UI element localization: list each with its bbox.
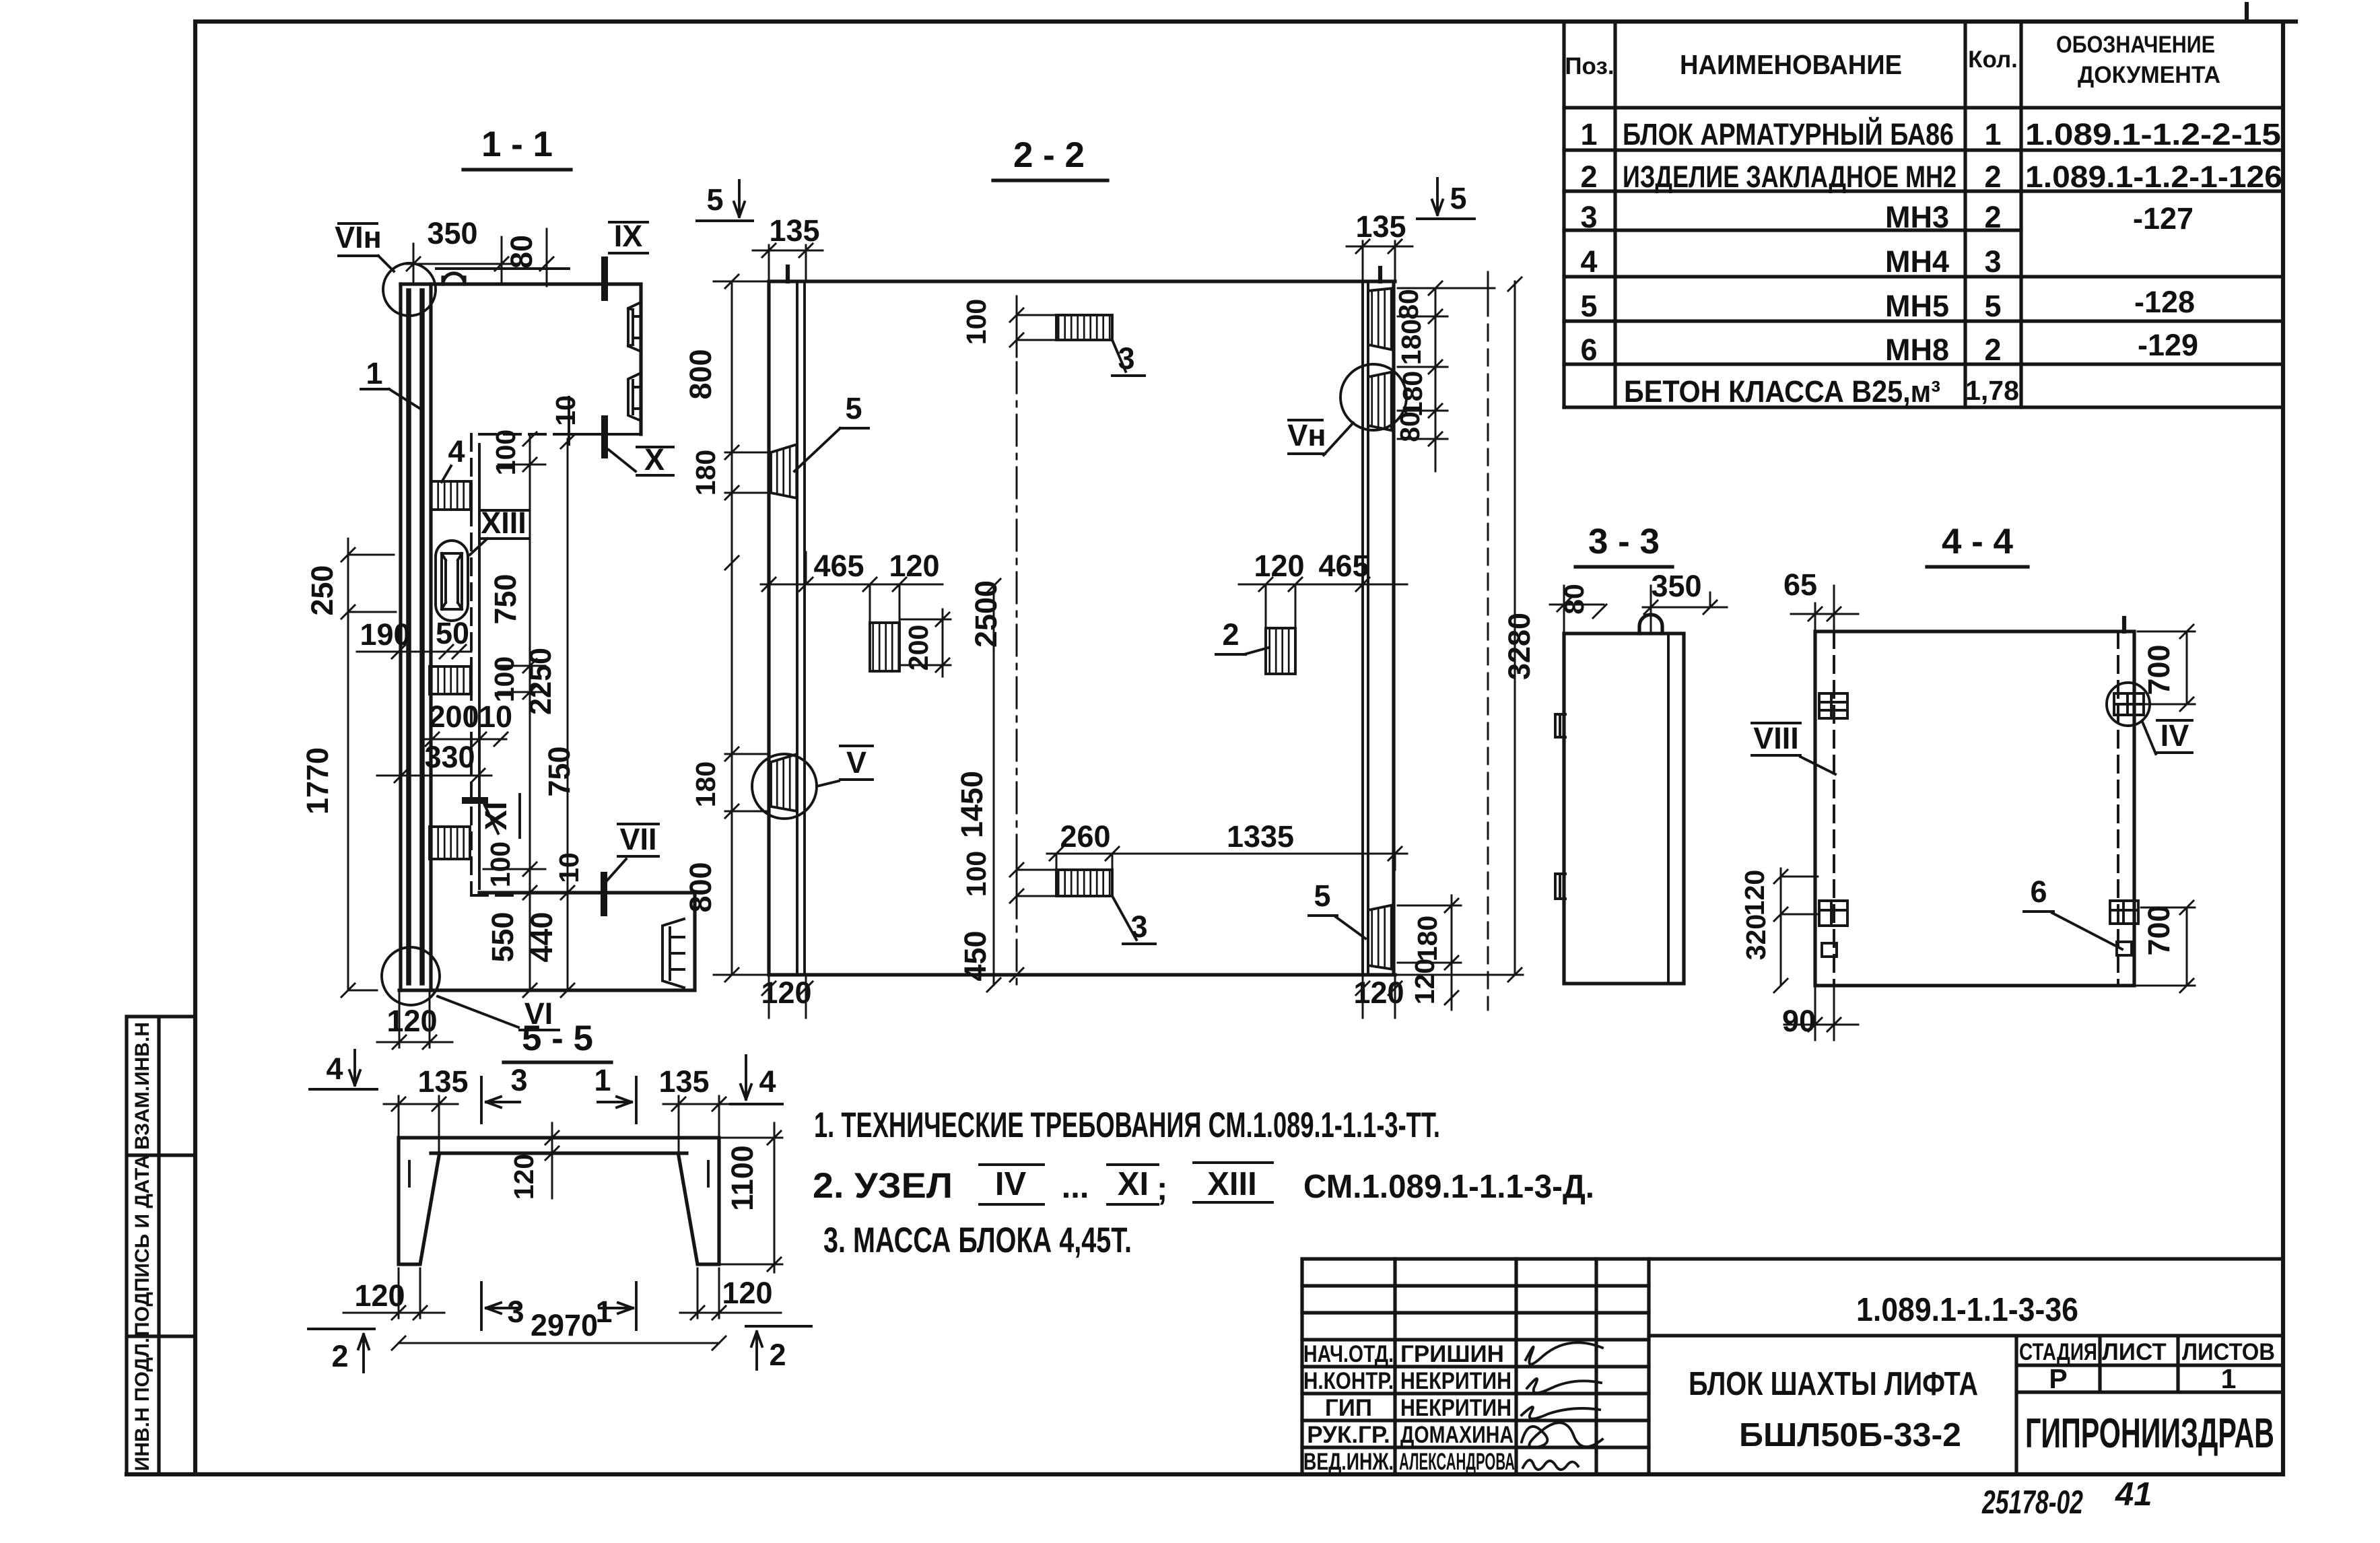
svg-text:1450: 1450 (955, 771, 989, 838)
svg-text:100: 100 (961, 299, 992, 345)
svg-text:ИНВ.Н ПОДЛ.: ИНВ.Н ПОДЛ. (131, 1338, 154, 1472)
svg-text:65: 65 (1783, 568, 1817, 602)
svg-text:ГРИШИН: ГРИШИН (1400, 1341, 1504, 1367)
svg-text:450: 450 (958, 930, 992, 981)
svg-text:80: 80 (504, 235, 539, 269)
svg-text:IX: IX (614, 219, 643, 253)
svg-text:5: 5 (1314, 879, 1330, 913)
1-1 key top A (628, 302, 641, 351)
svg-text:120: 120 (508, 1154, 539, 1200)
1-1 inner face dashed (471, 434, 569, 895)
svg-text:1: 1 (2221, 1363, 2237, 1394)
svg-text:700: 700 (2142, 905, 2176, 955)
4-4 circled node IV (2107, 683, 2150, 726)
svg-text:МН3: МН3 (1885, 200, 1949, 234)
svg-text:5: 5 (1450, 181, 1466, 215)
svg-text:5: 5 (706, 182, 723, 217)
2-2 left wall inner lines (797, 281, 805, 975)
svg-text:135: 135 (417, 1064, 468, 1099)
svg-text:2 - 2: 2 - 2 (1013, 135, 1085, 175)
svg-text:180: 180 (690, 450, 721, 495)
svg-text:5 - 5: 5 - 5 (522, 1019, 593, 1058)
svg-text:3 - 3: 3 - 3 (1588, 522, 1660, 561)
1-1 node circle VI (382, 947, 440, 1005)
2-2 rebar ticks top (788, 267, 1380, 281)
svg-text:1.089.1-1.1-3-36: 1.089.1-1.1-3-36 (1856, 1292, 2078, 1328)
svg-text:1770: 1770 (300, 747, 335, 815)
1-1 oval hole XIII (436, 541, 468, 621)
svg-text:120: 120 (1409, 959, 1440, 1004)
svg-text:Поз.: Поз. (1565, 53, 1614, 79)
svg-text:3280: 3280 (1502, 613, 1536, 680)
svg-text:XI: XI (1118, 1166, 1149, 1202)
svg-text:XIII: XIII (1207, 1166, 1257, 1202)
svg-text:-129: -129 (2138, 328, 2198, 362)
svg-text:1: 1 (595, 1295, 612, 1329)
svg-text:135: 135 (769, 213, 819, 248)
2-2 hatch plate 3 top (1056, 315, 1112, 340)
svg-text:5: 5 (845, 391, 862, 425)
svg-text:2. УЗЕЛ: 2. УЗЕЛ (813, 1166, 953, 1206)
svg-text:1: 1 (1580, 117, 1597, 151)
2-2 main outline (769, 281, 1395, 975)
title block outer (1302, 1259, 2283, 1474)
1-1 node circle VIн (383, 263, 436, 316)
svg-text:1100: 1100 (725, 1145, 759, 1211)
svg-text:465: 465 (813, 549, 864, 583)
svg-text:135: 135 (658, 1064, 709, 1099)
svg-text:СТАДИЯ: СТАДИЯ (2019, 1339, 2097, 1365)
svg-text:5: 5 (1580, 289, 1597, 323)
svg-text:VIн: VIн (335, 220, 382, 254)
1-1 key top B (628, 373, 641, 421)
2-2 embedded plate 2 right (1266, 628, 1295, 674)
svg-text:3: 3 (1130, 910, 1147, 944)
svg-text:1: 1 (594, 1063, 611, 1097)
3-3 lifting loop (1639, 615, 1662, 633)
2-2 right wall wedge bottom (1368, 905, 1394, 969)
svg-text:750: 750 (488, 574, 522, 624)
svg-text:3: 3 (507, 1295, 524, 1329)
svg-text:ВЗАМ.ИНВ.Н: ВЗАМ.ИНВ.Н (131, 1022, 154, 1150)
svg-text:1: 1 (366, 356, 382, 390)
svg-text:Кол.: Кол. (1968, 46, 2018, 73)
svg-text:ДОМАХИНА: ДОМАХИНА (1400, 1422, 1514, 1448)
svg-text:3: 3 (1984, 244, 2001, 279)
svg-text:320: 320 (1740, 914, 1771, 960)
svg-text:ИЗДЕЛИЕ ЗАКЛАДНОЕ МН2: ИЗДЕЛИЕ ЗАКЛАДНОЕ МН2 (1623, 160, 1957, 194)
svg-text:МН4: МН4 (1885, 244, 1949, 279)
svg-text:БЕТОН КЛАССА В25,м³: БЕТОН КЛАССА В25,м³ (1624, 374, 1940, 409)
svg-text:80: 80 (1394, 411, 1425, 442)
svg-text:1 - 1: 1 - 1 (481, 125, 553, 164)
svg-text:1. ТЕХНИЧЕСКИЕ ТРЕБОВАНИЯ СМ.1: 1. ТЕХНИЧЕСКИЕ ТРЕБОВАНИЯ СМ.1.089.1-1.1… (814, 1105, 1440, 1145)
svg-text:120: 120 (1353, 975, 1404, 1010)
4-4 dashed lines (1834, 631, 2118, 986)
2-2 axis dashdot (1016, 310, 1018, 985)
svg-text:БЛОК АРМАТУРНЫЙ БА86: БЛОК АРМАТУРНЫЙ БА86 (1623, 117, 1954, 151)
svg-text:330: 330 (424, 740, 475, 774)
svg-text:НЕКРИТИН: НЕКРИТИН (1400, 1368, 1511, 1394)
svg-text:ЛИСТОВ: ЛИСТОВ (2182, 1339, 2275, 1365)
svg-text:...: ... (1062, 1169, 1089, 1205)
5-5 leg marks (409, 1161, 708, 1186)
svg-text:ДОКУМЕНТА: ДОКУМЕНТА (2078, 62, 2220, 88)
svg-text:4: 4 (448, 434, 465, 469)
svg-text:10: 10 (479, 699, 512, 734)
svg-text:350: 350 (1651, 569, 1701, 603)
svg-text:НАИМЕНОВАНИЕ: НАИМЕНОВАНИЕ (1680, 49, 1902, 80)
svg-text:4: 4 (326, 1052, 343, 1086)
svg-text:800: 800 (683, 862, 718, 912)
svg-text:ВЕД.ИНЖ.: ВЕД.ИНЖ. (1303, 1449, 1394, 1475)
svg-text:ГИП: ГИП (1325, 1395, 1372, 1421)
svg-text:100: 100 (490, 430, 521, 475)
svg-text:4 - 4: 4 - 4 (1942, 522, 2014, 561)
svg-text:1.089.1-1.2-2-15: 1.089.1-1.2-2-15 (2025, 117, 2281, 151)
svg-text:ГИПРОНИИЗДРАВ: ГИПРОНИИЗДРАВ (2025, 1410, 2274, 1457)
svg-text:ОБОЗНАЧЕНИЕ: ОБОЗНАЧЕНИЕ (2056, 32, 2215, 58)
svg-text:6: 6 (2030, 875, 2047, 909)
1-1 embedded plate 4 upper (431, 481, 471, 510)
svg-text:МН8: МН8 (1885, 333, 1949, 367)
svg-text:МН5: МН5 (1885, 289, 1949, 323)
svg-text:550: 550 (485, 912, 520, 962)
svg-text:10: 10 (550, 395, 581, 426)
4-4 left plate VIII upper (1819, 693, 1847, 718)
svg-text:2: 2 (769, 1338, 786, 1372)
svg-text:IV: IV (2161, 718, 2189, 753)
svg-text:РУК.ГР.: РУК.ГР. (1307, 1422, 1390, 1448)
4-4 rebar tick top (2122, 618, 2126, 631)
svg-text:260: 260 (1060, 819, 1110, 854)
4-4 right nub (2117, 942, 2132, 955)
svg-text:2: 2 (1580, 160, 1597, 194)
2-2 wedge left top (771, 444, 797, 498)
svg-text:Н.КОНТР.: Н.КОНТР. (1303, 1368, 1394, 1394)
svg-text:2500: 2500 (969, 580, 1003, 648)
svg-text:-127: -127 (2133, 201, 2194, 236)
svg-text:ЛИСТ: ЛИСТ (2102, 1339, 2167, 1365)
2-2 wedge left bottom circled V (771, 754, 797, 811)
svg-text:ПОДПИСЬ И ДАТА: ПОДПИСЬ И ДАТА (131, 1155, 154, 1336)
svg-text:СМ.1.089.1-1.1-3-Д.: СМ.1.089.1-1.1-3-Д. (1303, 1169, 1594, 1205)
svg-text:;: ; (1157, 1171, 1167, 1207)
svg-text:1.089.1-1.2-1-126: 1.089.1-1.2-1-126 (2025, 160, 2282, 194)
svg-text:БЛОК ШАХТЫ ЛИФТА: БЛОК ШАХТЫ ЛИФТА (1689, 1366, 1978, 1402)
svg-text:180: 180 (1412, 916, 1443, 961)
svg-text:100: 100 (489, 656, 520, 702)
5-5 channel outline (399, 1138, 719, 1264)
svg-text:120: 120 (354, 1278, 405, 1313)
svg-text:НЕКРИТИН: НЕКРИТИН (1400, 1395, 1511, 1421)
svg-text:4: 4 (759, 1064, 776, 1099)
svg-text:120: 120 (1739, 870, 1770, 916)
1-1 wall outline (399, 284, 695, 990)
svg-text:180: 180 (1396, 319, 1427, 365)
svg-text:Vн: Vн (1287, 418, 1326, 452)
svg-text:350: 350 (427, 216, 477, 250)
signatures (1522, 1342, 1602, 1470)
1-1 wall rebar bars (409, 291, 422, 983)
svg-text:2: 2 (1984, 333, 2001, 367)
svg-text:НАЧ.ОТД.: НАЧ.ОТД. (1303, 1341, 1394, 1367)
3-3 left tabs (1555, 714, 1565, 737)
svg-text:200: 200 (903, 625, 934, 671)
svg-text:4: 4 (1580, 244, 1597, 279)
4-4 left nub (1822, 943, 1837, 957)
svg-text:120: 120 (722, 1276, 772, 1310)
svg-text:2: 2 (1222, 617, 1239, 652)
4-4 left plate lower (1819, 901, 1847, 926)
svg-text:2970: 2970 (531, 1308, 598, 1342)
svg-text:120: 120 (1254, 549, 1304, 583)
2-2 right wall inner lines (1363, 281, 1368, 975)
svg-text:180: 180 (690, 761, 721, 807)
2-2 right wall wedge circled Vн (1368, 372, 1394, 431)
left stamp strip (127, 1017, 195, 1474)
svg-text:120: 120 (889, 549, 939, 583)
svg-text:5: 5 (1984, 289, 2001, 323)
2-2 embedded plate mid-left (870, 623, 899, 671)
svg-text:2: 2 (1984, 160, 2001, 194)
4-4 body (1815, 631, 2134, 986)
svg-text:V: V (846, 745, 866, 780)
svg-text:135: 135 (1355, 209, 1406, 244)
svg-text:10: 10 (553, 852, 584, 883)
2-2 hatch plate 3 bottom (1056, 870, 1112, 896)
svg-text:80: 80 (1393, 289, 1424, 320)
svg-text:3: 3 (1580, 200, 1597, 234)
svg-text:700: 700 (2142, 644, 2176, 695)
svg-text:2: 2 (331, 1339, 348, 1373)
2-2 right wall wedge top (1368, 288, 1394, 350)
4-4 right plate lower (2110, 901, 2138, 924)
2-2 right dashed ext (1487, 300, 1489, 1010)
3-3 body (1564, 633, 1684, 984)
svg-text:VIII: VIII (1753, 721, 1799, 755)
svg-text:1335: 1335 (1227, 819, 1294, 854)
svg-text:750: 750 (542, 746, 576, 796)
svg-text:2: 2 (1984, 200, 2001, 234)
svg-text:41: 41 (2115, 1476, 2152, 1513)
1-1 embedded plate middle (430, 666, 471, 694)
svg-text:Р: Р (2049, 1363, 2067, 1394)
specification table grid (1564, 22, 2283, 407)
1-1 top lifting loop (443, 273, 465, 284)
svg-text:800: 800 (683, 349, 718, 399)
1-1 embedded plate lower (430, 827, 470, 859)
svg-text:3. МАССА БЛОКА 4,45Т.: 3. МАССА БЛОКА 4,45Т. (823, 1221, 1132, 1260)
svg-text:200: 200 (428, 699, 479, 734)
svg-text:1,78: 1,78 (1965, 375, 2019, 406)
1-1 inner face solid line (436, 269, 641, 889)
svg-text:90: 90 (1782, 1004, 1816, 1038)
1-1 key bottom (662, 919, 684, 988)
svg-text:6: 6 (1580, 333, 1597, 367)
svg-text:25178-02: 25178-02 (1981, 1484, 2083, 1521)
svg-text:100: 100 (961, 851, 992, 897)
svg-text:3: 3 (510, 1063, 527, 1097)
svg-text:IV: IV (995, 1166, 1027, 1202)
svg-text:1: 1 (1984, 117, 2001, 151)
svg-text:465: 465 (1318, 549, 1369, 583)
svg-text:250: 250 (305, 565, 339, 615)
svg-text:440: 440 (524, 912, 559, 962)
svg-text:2250: 2250 (523, 648, 557, 715)
svg-text:100: 100 (485, 842, 516, 887)
svg-text:VII: VII (619, 822, 656, 856)
svg-text:БШЛ50Б-33-2: БШЛ50Б-33-2 (1739, 1417, 1961, 1453)
svg-text:-128: -128 (2134, 285, 2195, 319)
svg-text:АЛЕКСАНДРОВА: АЛЕКСАНДРОВА (1399, 1449, 1515, 1475)
